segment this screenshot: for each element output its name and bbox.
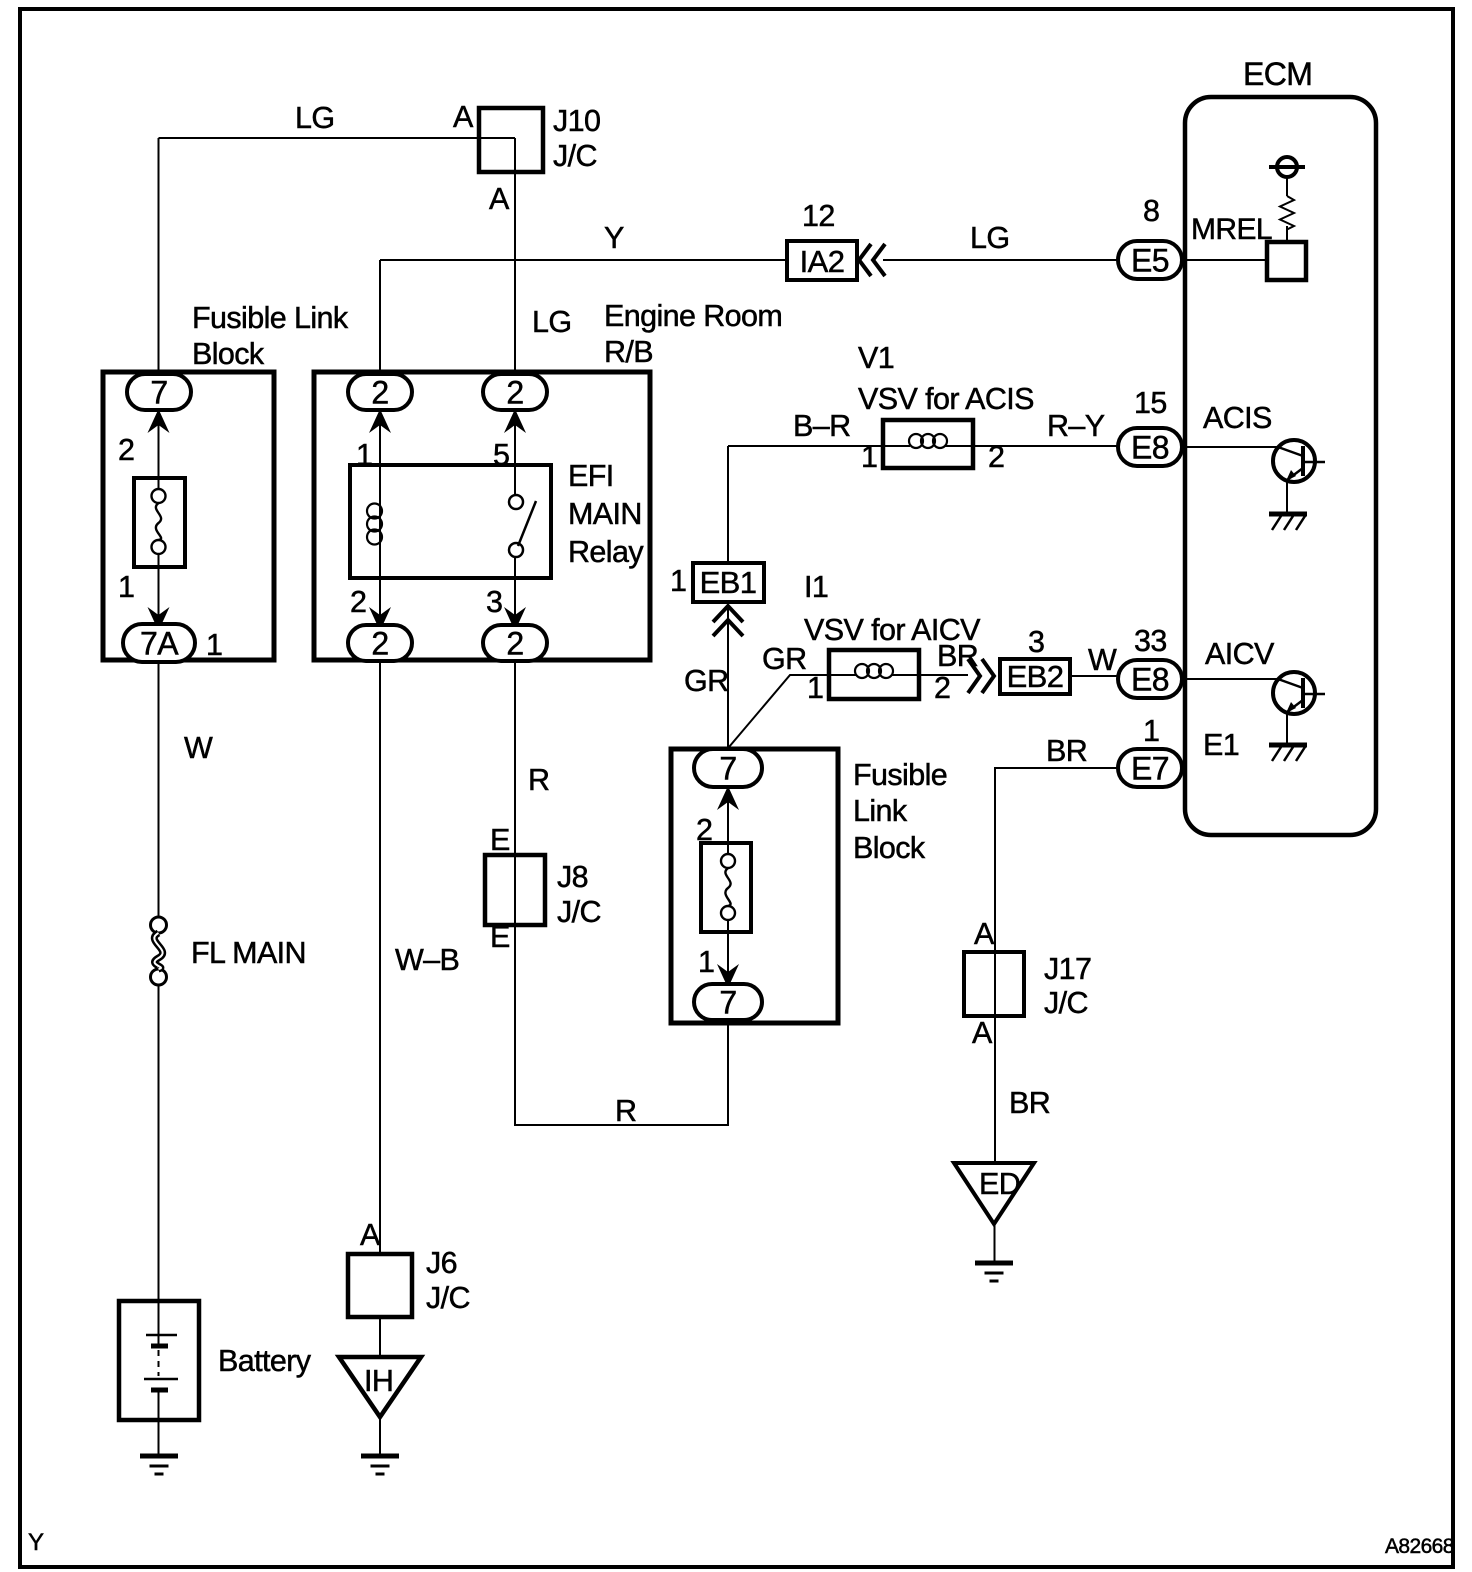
- svg-text:FL MAIN: FL MAIN: [191, 936, 306, 970]
- label V1 VSV for ACIS: [858, 341, 1034, 416]
- wire through relay coil branch: [379, 410, 381, 625]
- svg-text:J/C: J/C: [1044, 986, 1088, 1020]
- label I1 VSV for AICV: [804, 570, 981, 647]
- double chevron up (EB1): [713, 606, 743, 636]
- svg-text:ACIS: ACIS: [1203, 401, 1272, 435]
- wire R-Y: VSV for ACIS to E8: [945, 445, 1118, 447]
- svg-text:8: 8: [1143, 194, 1159, 228]
- wire W: EB2 to E8: [1070, 675, 1118, 677]
- label J6 J/C: [426, 1246, 470, 1315]
- ECM block outline: [1185, 97, 1376, 835]
- svg-text:E: E: [490, 823, 510, 857]
- relay switch: [509, 495, 536, 557]
- svg-text:7: 7: [719, 751, 736, 787]
- svg-text:2: 2: [506, 626, 523, 662]
- connector 7 (FLB2 top): [694, 749, 762, 787]
- svg-text:1: 1: [118, 570, 134, 604]
- Engine Room R/B outline: [314, 372, 650, 660]
- svg-text:3: 3: [1028, 625, 1044, 659]
- wire BR: VSV for AICV to chevron: [891, 674, 968, 676]
- svg-text:J10: J10: [553, 104, 600, 138]
- svg-text:LG: LG: [532, 305, 572, 339]
- connector E8 (AICV): [1118, 660, 1182, 698]
- svg-text:Battery: Battery: [218, 1344, 312, 1378]
- connector 7A (Fusible Link Block bottom): [123, 624, 195, 662]
- connector E7: [1118, 749, 1182, 787]
- connector 7 (Fusible Link Block top): [127, 374, 191, 411]
- svg-text:BR: BR: [1009, 1086, 1050, 1120]
- connector E8 (ACIS): [1118, 428, 1182, 466]
- svg-text:A: A: [972, 1016, 993, 1050]
- svg-text:3: 3: [486, 585, 502, 619]
- connector 7 (FLB2 bottom): [694, 984, 762, 1021]
- svg-text:7A: 7A: [140, 626, 179, 662]
- connector 2 (R/B bottom right): [483, 625, 547, 662]
- svg-text:7: 7: [719, 985, 736, 1021]
- svg-text:7: 7: [150, 375, 167, 411]
- wire: vertical down to EB1: [727, 446, 729, 563]
- svg-text:33: 33: [1134, 624, 1167, 658]
- EFI MAIN Relay box: [350, 465, 551, 578]
- svg-text:J6: J6: [426, 1246, 457, 1280]
- wire: E8 to AICV transistor: [1182, 678, 1278, 680]
- junction J8 box: [485, 855, 545, 925]
- svg-text:GR: GR: [762, 642, 807, 676]
- svg-text:15: 15: [1134, 386, 1167, 420]
- connector E5: [1118, 241, 1182, 279]
- label Fusible Link Block: [192, 301, 349, 371]
- svg-text:E8: E8: [1131, 662, 1169, 698]
- ground symbol (IH): [361, 1454, 399, 1459]
- svg-text:E5: E5: [1131, 243, 1169, 279]
- VSV ACIS coil: [909, 434, 947, 448]
- connector 2 (R/B top left): [348, 374, 412, 411]
- wire: vertical down to R/B pin 2: [379, 260, 381, 374]
- connector EB2 box: [1000, 659, 1070, 694]
- svg-text:EB2: EB2: [1007, 659, 1064, 694]
- wire B-R: corner to VSV for ACIS: [728, 445, 910, 447]
- arrow up into left pin 2: [369, 409, 391, 433]
- svg-text:IA2: IA2: [800, 244, 845, 279]
- junction J6 box: [348, 1254, 412, 1317]
- svg-text:1: 1: [861, 440, 877, 474]
- svg-text:2: 2: [506, 375, 523, 411]
- VSV for ACIS (V1) box: [883, 420, 973, 468]
- arrow down into bottom right pin 2: [504, 607, 526, 631]
- EFI No.2 Fuse rect: [701, 843, 751, 932]
- svg-text:2: 2: [988, 440, 1004, 474]
- ACIS driver transistor: [1269, 440, 1325, 530]
- svg-text:A: A: [360, 1218, 381, 1252]
- svg-text:B–R: B–R: [793, 409, 851, 443]
- EFI No.2 fuse symbol: [721, 854, 735, 920]
- Fusible Link Block (No.2) outline: [671, 749, 838, 1023]
- power symbol: [1269, 157, 1305, 177]
- ground triangle ED: [954, 1163, 1034, 1224]
- svg-text:12: 12: [802, 199, 835, 233]
- AICV driver transistor: [1269, 672, 1325, 761]
- double chevron left (IA2): [859, 244, 885, 276]
- wire inside Fusible Link Block No.2: [727, 787, 729, 984]
- svg-text:R–Y: R–Y: [1047, 409, 1105, 443]
- svg-text:W: W: [184, 731, 213, 765]
- double chevron right (EB2): [968, 659, 994, 693]
- resistor (MREL pullup): [1280, 177, 1294, 242]
- svg-text:2: 2: [934, 671, 950, 705]
- svg-text:1: 1: [698, 945, 714, 979]
- label Fusible Link Block (No.2): [853, 758, 947, 865]
- svg-text:GR: GR: [684, 664, 729, 698]
- EFI No.1 fuse symbol: [152, 489, 166, 554]
- svg-text:Link: Link: [853, 794, 908, 828]
- svg-text:EB1: EB1: [700, 565, 757, 600]
- svg-text:BR: BR: [1046, 734, 1087, 768]
- svg-text:Relay: Relay: [568, 535, 644, 569]
- svg-text:Fusible: Fusible: [853, 758, 947, 792]
- svg-text:MAIN: MAIN: [568, 497, 642, 531]
- svg-text:E7: E7: [1131, 751, 1169, 787]
- wire GR: EB1 down to fusible link pin 7: [727, 602, 729, 750]
- svg-text:A82668: A82668: [1385, 1535, 1454, 1558]
- connector IA2 box: [787, 241, 857, 280]
- svg-text:2: 2: [350, 585, 366, 619]
- wire Y: horizontal to IA2: [380, 259, 787, 261]
- connector 2 (R/B top right): [483, 374, 547, 411]
- svg-text:E1: E1: [1203, 728, 1239, 762]
- svg-text:1: 1: [356, 438, 372, 472]
- arrow down into bottom left pin 2: [369, 607, 391, 631]
- wire R: relay to J8 down and across to EFI No.2 fuse: [515, 661, 728, 1125]
- svg-text:2: 2: [371, 626, 388, 662]
- svg-text:R/B: R/B: [604, 335, 653, 369]
- junction J17 box: [964, 952, 1024, 1016]
- Fusible Link Block (No.1) outline: [103, 372, 274, 660]
- svg-text:1: 1: [807, 671, 823, 705]
- arrow up into right pin 2: [504, 409, 526, 433]
- label J10 J/C: [553, 104, 600, 173]
- arrow down into pin 7A: [148, 607, 170, 631]
- svg-text:V1: V1: [858, 341, 894, 375]
- connector EB1 box: [693, 563, 764, 602]
- ground triangle IH: [339, 1357, 421, 1417]
- svg-text:MREL: MREL: [1191, 213, 1272, 246]
- svg-text:2: 2: [118, 433, 134, 467]
- svg-text:W: W: [1088, 643, 1117, 677]
- svg-text:A: A: [453, 100, 474, 134]
- svg-text:5: 5: [493, 438, 509, 472]
- svg-text:Block: Block: [853, 831, 926, 865]
- label J8 J/C: [557, 860, 601, 929]
- wire LG: J10 to Fusible Link Block: [159, 137, 516, 139]
- label EFI MAIN Relay: [568, 459, 644, 569]
- connector 2 (R/B bottom left): [348, 625, 412, 662]
- EFI No.1 Fuse rect: [134, 478, 185, 567]
- svg-text:J8: J8: [557, 860, 588, 894]
- svg-text:VSV for ACIS: VSV for ACIS: [858, 382, 1034, 416]
- svg-text:Y: Y: [28, 1529, 44, 1556]
- svg-text:ED: ED: [979, 1167, 1020, 1201]
- svg-text:J/C: J/C: [557, 895, 601, 929]
- label J17 J/C: [1044, 952, 1091, 1020]
- svg-text:A: A: [974, 917, 995, 951]
- svg-text:R: R: [615, 1094, 636, 1128]
- battery plates: [144, 1335, 178, 1390]
- wire: left vertical down to pin 7: [158, 138, 160, 374]
- wire: E8 to ACIS transistor: [1182, 446, 1278, 448]
- svg-text:IH: IH: [364, 1364, 393, 1398]
- svg-text:AICV: AICV: [1205, 637, 1275, 671]
- FL MAIN fusible link symbol: [151, 917, 167, 985]
- ground symbol (ED): [975, 1261, 1013, 1266]
- wire LG: IA2 to E5: [883, 259, 1118, 261]
- svg-text:A: A: [489, 182, 510, 216]
- svg-text:J17: J17: [1044, 952, 1091, 986]
- connector label 12 / IA2: [800, 199, 845, 279]
- svg-text:E: E: [490, 920, 510, 954]
- junction J10 box: [479, 108, 543, 172]
- svg-text:1: 1: [1143, 714, 1159, 748]
- svg-text:J/C: J/C: [553, 139, 597, 173]
- wire through relay switch branch: [514, 410, 516, 625]
- Battery box: [119, 1301, 199, 1420]
- svg-text:2: 2: [371, 375, 388, 411]
- svg-text:ECM: ECM: [1243, 56, 1312, 92]
- svg-text:Block: Block: [192, 337, 265, 371]
- svg-text:Y: Y: [604, 221, 624, 255]
- svg-text:LG: LG: [970, 221, 1010, 255]
- svg-text:2: 2: [696, 813, 712, 847]
- svg-text:E8: E8: [1131, 430, 1169, 466]
- wire LG A: J10 down to Engine Room R/B pin 2: [514, 138, 516, 374]
- label Engine Room R/B: [604, 299, 782, 369]
- wire: E5 to MREL square: [1182, 259, 1267, 261]
- wire W: 7A to FL MAIN to Battery: [158, 661, 160, 1456]
- wire W-B: R/B down through J6 to IH: [379, 661, 381, 1456]
- svg-text:LG: LG: [295, 101, 335, 135]
- svg-text:J/C: J/C: [426, 1281, 470, 1315]
- relay coil: [367, 504, 382, 545]
- svg-text:Engine Room: Engine Room: [604, 299, 782, 333]
- svg-text:I1: I1: [804, 570, 828, 604]
- ground symbol (Battery): [140, 1454, 178, 1459]
- wire GR diagonal to VSV for AICV: [729, 675, 857, 747]
- svg-text:R: R: [528, 763, 549, 797]
- MREL driver square: [1267, 242, 1306, 280]
- svg-text:Fusible Link: Fusible Link: [192, 301, 349, 335]
- svg-text:W–B: W–B: [395, 943, 459, 977]
- svg-text:EFI: EFI: [568, 459, 614, 493]
- svg-text:1: 1: [670, 564, 686, 598]
- wire BR: E7 through J17 to ED: [995, 768, 1119, 1263]
- arrow up into pin 7 (FLB2): [717, 786, 739, 810]
- svg-text:1: 1: [206, 628, 222, 662]
- VSV for AICV (I1) box: [829, 650, 919, 699]
- arrow up into pin 7: [148, 409, 170, 433]
- arrow down into bottom pin 7 (FLB2): [717, 964, 739, 988]
- VSV AICV coil: [855, 664, 893, 678]
- wire inside Fusible Link Block No.1: [158, 410, 160, 631]
